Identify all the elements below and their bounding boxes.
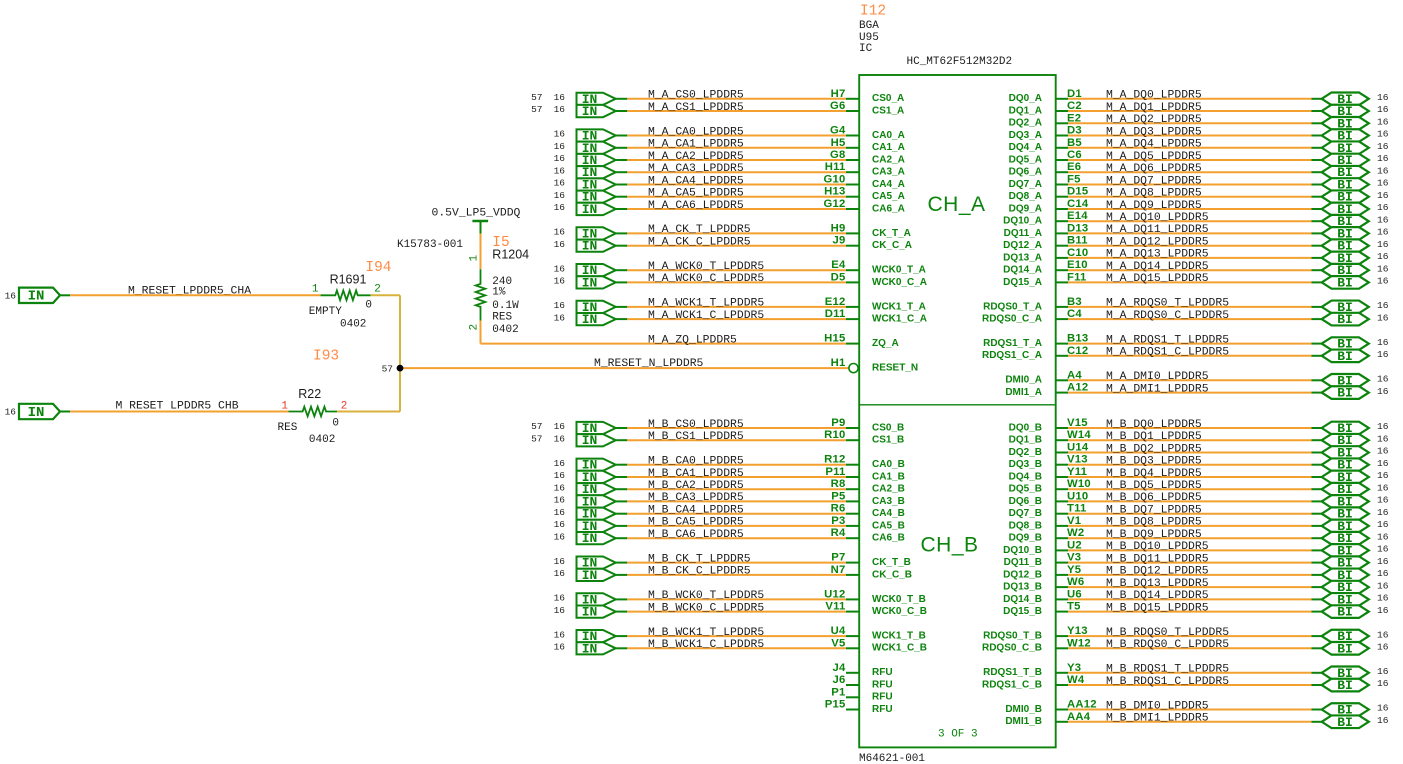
svg-text:M_A_DQ8_LPDDR5: M_A_DQ8_LPDDR5 (1106, 188, 1202, 200)
port IN M_A_CK_T_LPDDR5 (577, 226, 616, 241)
svg-text:DQ7_B: DQ7_B (1009, 508, 1042, 519)
bus width 16 for M_B_DQ15_LPDDR5 (1377, 605, 1389, 616)
svg-text:V11: V11 (825, 601, 845, 613)
pin stub AA4 (1056, 721, 1068, 723)
svg-text:EMPTY: EMPTY (309, 306, 342, 318)
port BI M_A_DQ3_LPDDR5 (1322, 129, 1369, 144)
pin number W6 (1067, 576, 1084, 588)
port IN M_B_CA3_LPDDR5 (577, 494, 616, 509)
net label M_B_DQ1_LPDDR5 (1106, 431, 1202, 443)
svg-text:16: 16 (1377, 202, 1389, 213)
bus width 16 for M_A_DQ10_LPDDR5 (1377, 214, 1389, 225)
svg-text:16: 16 (554, 239, 566, 250)
bus width 16 for M_A_RDQS0_C_LPDDR5 (1377, 312, 1389, 323)
wire M_B_DMI1_LPDDR5 (1068, 721, 1322, 723)
pin stub D15 (1056, 196, 1068, 198)
svg-text:DQ11_A: DQ11_A (1004, 228, 1042, 239)
pin number H15 (824, 333, 845, 345)
pin name CA3_B (CH_B) (872, 496, 905, 507)
svg-text:DQ4_A: DQ4_A (1009, 142, 1042, 153)
pin number B3 (1067, 296, 1082, 308)
wire M_B_DQ14_LPDDR5 (1068, 598, 1322, 600)
pin stub U6 (1056, 598, 1068, 600)
svg-text:16: 16 (1377, 227, 1389, 238)
bus width 57 at junction (382, 363, 393, 374)
wire M_A_CS1_LPDDR5 (616, 110, 846, 112)
junction node 57 (397, 365, 404, 372)
port IN M_A_WCK1_T_LPDDR5 (577, 300, 616, 315)
wire M_B_CK_T_LPDDR5 (616, 562, 846, 564)
svg-text:R8: R8 (831, 478, 846, 490)
svg-text:N7: N7 (831, 564, 846, 576)
net label M_A_CA0_LPDDR5 (648, 126, 744, 138)
pin stub V15 (1056, 427, 1068, 429)
pin name CA5_B (CH_B) (872, 520, 905, 531)
pin stub H11 (846, 171, 859, 173)
tolerance 1% of R1204 (492, 286, 506, 298)
svg-text:M_B_DQ12_LPDDR5: M_B_DQ12_LPDDR5 (1106, 566, 1209, 578)
wire M_RESET_N_LPDDR5 (400, 367, 849, 369)
type RES of R1204 (492, 312, 512, 324)
svg-text:M_B_DQ15_LPDDR5: M_B_DQ15_LPDDR5 (1106, 602, 1209, 614)
svg-text:D1: D1 (1067, 88, 1082, 100)
pin name CA4_A (872, 179, 905, 190)
pin stub H9 (846, 232, 859, 234)
net label 0.5V_LP5_VDDQ (432, 208, 521, 220)
svg-text:DQ6_A: DQ6_A (1009, 167, 1042, 178)
svg-text:CA5_B: CA5_B (872, 520, 905, 531)
pin name WCK1_T_A (872, 301, 926, 312)
svg-text:RES: RES (492, 312, 512, 324)
pin number P1 (831, 686, 845, 698)
svg-text:16: 16 (554, 165, 566, 176)
port IN M_RESET_LPDDR5_CHA (19, 288, 60, 305)
pin number B11 (1067, 235, 1088, 247)
svg-text:16: 16 (1377, 178, 1389, 189)
svg-text:RFU: RFU (872, 704, 893, 715)
svg-text:16: 16 (1377, 165, 1389, 176)
port BI M_A_DQ9_LPDDR5 (1322, 202, 1369, 217)
svg-text:W14: W14 (1067, 429, 1091, 441)
pin stub P5 (846, 500, 859, 502)
pin number H7 (831, 88, 846, 100)
pin stub Y13 (1056, 635, 1068, 637)
wire M_A_DQ3_LPDDR5 (1068, 135, 1322, 137)
svg-text:W6: W6 (1067, 576, 1084, 588)
pin name CA1_B (CH_B) (872, 471, 905, 482)
pin number D1 (1067, 88, 1082, 100)
bus width 16 for M_B_WCK1_T_LPDDR5 (554, 629, 566, 640)
port BI M_A_DQ8_LPDDR5 (1322, 190, 1369, 205)
svg-text:M_B_WCK1_T_LPDDR5: M_B_WCK1_T_LPDDR5 (648, 627, 764, 639)
svg-text:M_A_ZQ_LPDDR5: M_A_ZQ_LPDDR5 (648, 334, 737, 346)
wire M_A_DMI0_LPDDR5 (1068, 379, 1322, 381)
svg-text:M_A_RDQS1_C_LPDDR5: M_A_RDQS1_C_LPDDR5 (1106, 347, 1229, 359)
port BI M_B_RDQS1_C_LPDDR5 (1322, 678, 1369, 693)
svg-text:M_B_CA6_LPDDR5: M_B_CA6_LPDDR5 (648, 529, 744, 541)
svg-text:RDQS0_C_B: RDQS0_C_B (982, 643, 1042, 654)
svg-text:C2: C2 (1067, 100, 1082, 112)
svg-text:J4: J4 (833, 662, 846, 674)
svg-text:V15: V15 (1067, 417, 1088, 429)
pin number Y13 (1067, 625, 1088, 637)
wire M RESET LPDDR5 CHB from port (60, 411, 70, 413)
svg-text:16: 16 (1377, 92, 1389, 103)
bus width 16 for M_B_DQ4_LPDDR5 (1377, 470, 1389, 481)
pin stub R12 (846, 464, 859, 466)
svg-text:RES: RES (278, 422, 298, 434)
net label M_A_ZQ_LPDDR5 (648, 334, 737, 346)
pin stub D13 (1056, 232, 1068, 234)
pin number G6 (830, 100, 845, 112)
svg-text:M_A_CS0_LPDDR5: M_A_CS0_LPDDR5 (648, 90, 744, 102)
wire M_B_DQ1_LPDDR5 (1068, 439, 1322, 441)
svg-text:DQ3_B: DQ3_B (1009, 459, 1042, 470)
svg-text:H5: H5 (831, 137, 846, 149)
pin number P15 (825, 699, 846, 711)
svg-text:M_B_DQ6_LPDDR5: M_B_DQ6_LPDDR5 (1106, 492, 1202, 504)
pin name DMI1_A (1005, 387, 1042, 398)
port BI M_B_DQ2_LPDDR5 (1322, 446, 1369, 461)
svg-text:M_A_CA3_LPDDR5: M_A_CA3_LPDDR5 (648, 163, 744, 175)
instance label I93 (313, 348, 339, 364)
pin name RFU (CH_B) (872, 692, 893, 703)
svg-text:16: 16 (554, 178, 566, 189)
svg-text:P5: P5 (831, 490, 845, 502)
pin name DQ5_B (CH_B) (1009, 484, 1042, 495)
svg-text:T11: T11 (1067, 503, 1086, 515)
net label M_B_DQ6_LPDDR5 (1106, 492, 1202, 504)
svg-text:BGA: BGA (859, 20, 879, 32)
pin name DQ3_B (CH_B) (1009, 459, 1042, 470)
bus width 16 for M_A_WCK0_C_LPDDR5 (554, 276, 566, 287)
svg-text:DQ12_A: DQ12_A (1003, 240, 1042, 251)
bus width 16 for M_A_RDQS1_C_LPDDR5 (1377, 349, 1389, 360)
port IN M_A_CA2_LPDDR5 (577, 153, 616, 168)
net label M_B_CA0_LPDDR5 (648, 456, 744, 468)
net label M_RESET_N_LPDDR5 (594, 358, 704, 370)
pin name DQ7_B (CH_B) (1009, 508, 1042, 519)
svg-text:M_B_CA0_LPDDR5: M_B_CA0_LPDDR5 (648, 456, 744, 468)
pin name CA0_B (CH_B) (872, 459, 905, 470)
svg-text:16: 16 (554, 300, 566, 311)
pin number V11 (825, 601, 845, 613)
svg-text:16: 16 (554, 276, 566, 287)
pin stub T11 (1056, 513, 1068, 515)
wire M_A_WCK1_C_LPDDR5 (616, 318, 846, 320)
wire M_A_DQ13_LPDDR5 (1068, 257, 1322, 259)
pin stub Y3 (1056, 672, 1068, 674)
pin name CS1_A (872, 105, 904, 116)
wire M_B_WCK1_T_LPDDR5 (616, 635, 846, 637)
svg-text:AA12: AA12 (1067, 699, 1097, 711)
pin number D13 (1067, 222, 1088, 234)
svg-text:B3: B3 (1067, 296, 1082, 308)
svg-text:BI: BI (1337, 641, 1353, 656)
bus width 16 for M_B_DQ8_LPDDR5 (1377, 519, 1389, 530)
pin 2 of R1204 (469, 324, 481, 331)
port BI M_B_DQ11_LPDDR5 (1322, 556, 1369, 571)
svg-text:H11: H11 (825, 161, 846, 173)
pin stub H15 (846, 343, 859, 345)
pin stub F5 (1056, 184, 1068, 186)
pin number P3 (831, 515, 845, 527)
svg-text:H9: H9 (831, 222, 846, 234)
svg-text:Y5: Y5 (1067, 564, 1081, 576)
wire M_A_CA4_LPDDR5 (616, 184, 846, 186)
part number K15783-001 (397, 239, 463, 251)
net label M_B_WCK1_T_LPDDR5 (648, 627, 764, 639)
svg-text:16: 16 (554, 458, 566, 469)
svg-text:M_A_CA5_LPDDR5: M_A_CA5_LPDDR5 (648, 188, 744, 200)
pin number F11 (1067, 271, 1086, 283)
net label M_A_RDQS0_T_LPDDR5 (1106, 298, 1229, 310)
bus width 16 for M_A_RDQS1_T_LPDDR5 (1377, 337, 1389, 348)
pin stub Y5 (1056, 574, 1068, 576)
wire M_B_CS1_LPDDR5 (616, 439, 846, 441)
svg-text:C12: C12 (1067, 345, 1088, 357)
svg-text:RDQS0_T_A: RDQS0_T_A (983, 301, 1042, 312)
pin stub E14 (1056, 220, 1068, 222)
pin name WCK1_T_B (CH_B) (872, 631, 926, 642)
svg-text:IN: IN (28, 289, 45, 305)
pin number W4 (1067, 674, 1085, 686)
pin name RDQS0_C_A (982, 314, 1042, 325)
pin stub R8 (846, 488, 859, 490)
svg-text:HC_MT62F512M32D2: HC_MT62F512M32D2 (907, 56, 1013, 68)
bus width 16 for M_A_CS0_LPDDR5 (554, 92, 566, 103)
net label M_A_DMI1_LPDDR5 (1106, 383, 1209, 395)
svg-text:IN: IN (582, 275, 598, 290)
pin name CA5_A (872, 191, 905, 202)
bus width 16 for M_A_CA2_LPDDR5 (554, 153, 566, 164)
wire M_B_CA6_LPDDR5 (616, 537, 846, 539)
pin name WCK0_C_A (872, 277, 927, 288)
bus width 16 for M_B_CS1_LPDDR5 (554, 433, 566, 444)
pin number V5 (831, 637, 845, 649)
pin number A12 (1067, 382, 1088, 394)
pin stub W14 (1056, 439, 1068, 441)
svg-text:DQ4_B: DQ4_B (1009, 471, 1042, 482)
bus width 16 for M_A_CA1_LPDDR5 (554, 141, 566, 152)
svg-text:C4: C4 (1067, 308, 1082, 320)
pin name DMI1_B (CH_B) (1005, 716, 1042, 727)
svg-text:0402: 0402 (492, 324, 518, 336)
svg-text:M_B_DQ0_LPDDR5: M_B_DQ0_LPDDR5 (1106, 419, 1202, 431)
wire M_B_DQ7_LPDDR5 (1068, 513, 1322, 515)
svg-text:G6: G6 (830, 100, 845, 112)
pin stub G12 (846, 208, 859, 210)
pin number R12 (824, 454, 845, 466)
pin number F5 (1067, 174, 1081, 186)
pin stub U10 (1056, 500, 1068, 502)
pin stub R6 (846, 513, 859, 515)
pin stub U14 (1056, 452, 1068, 454)
port BI M_B_DQ4_LPDDR5 (1322, 470, 1369, 485)
svg-text:M_B_DQ14_LPDDR5: M_B_DQ14_LPDDR5 (1106, 590, 1209, 602)
svg-text:M_B_RDQS0_C_LPDDR5: M_B_RDQS0_C_LPDDR5 (1106, 639, 1229, 651)
pin name WCK1_C_B (CH_B) (872, 643, 927, 654)
svg-text:CA2_B: CA2_B (872, 484, 905, 495)
pin name DQ11_B (CH_B) (1004, 557, 1042, 568)
bus width 16 for M_A_DQ12_LPDDR5 (1377, 239, 1389, 250)
svg-text:BI: BI (1337, 678, 1353, 693)
svg-text:0.1W: 0.1W (492, 300, 519, 312)
svg-text:IN: IN (582, 433, 598, 448)
svg-text:M_A_CA2_LPDDR5: M_A_CA2_LPDDR5 (648, 151, 744, 163)
bus width 16 for M_B_DQ9_LPDDR5 (1377, 531, 1389, 542)
pin stub U12 (846, 598, 859, 600)
svg-text:1: 1 (281, 400, 288, 412)
port IN M_B_WCK1_T_LPDDR5 (577, 629, 616, 644)
port BI M_A_DMI1_LPDDR5 (1322, 386, 1369, 401)
svg-text:M_B_DQ5_LPDDR5: M_B_DQ5_LPDDR5 (1106, 480, 1202, 492)
svg-text:16: 16 (1377, 239, 1389, 250)
refdes R22 (298, 387, 321, 401)
wire M_A_DMI1_LPDDR5 (1068, 392, 1322, 394)
port BI M_A_DQ1_LPDDR5 (1322, 104, 1369, 119)
svg-text:M64621-001: M64621-001 (859, 753, 925, 764)
pin stub R4 (846, 537, 859, 539)
port IN M_A_CS0_LPDDR5 (577, 92, 616, 107)
svg-text:CH_B: CH_B (921, 534, 979, 557)
bus width 57 for M_A_CS0_LPDDR5 (531, 92, 542, 103)
svg-text:DMI0_A: DMI0_A (1005, 375, 1042, 386)
svg-text:16: 16 (1377, 642, 1389, 653)
net label M_B_DQ0_LPDDR5 (1106, 419, 1202, 431)
pin name CA6_A (872, 203, 905, 214)
svg-text:DQ0_A: DQ0_A (1009, 93, 1042, 104)
svg-text:D13: D13 (1067, 222, 1088, 234)
svg-text:B11: B11 (1067, 235, 1088, 247)
net label M_B_DQ2_LPDDR5 (1106, 443, 1202, 455)
pin number G4 (830, 125, 846, 137)
net label M_B_CA6_LPDDR5 (648, 529, 744, 541)
bus width 16 for M_B_CA2_LPDDR5 (554, 482, 566, 493)
port BI M_A_DQ5_LPDDR5 (1322, 153, 1369, 168)
net label M_B_DQ14_LPDDR5 (1106, 590, 1209, 602)
pin name RDQS1_T_B (CH_B) (983, 667, 1042, 678)
svg-text:16: 16 (1377, 470, 1389, 481)
svg-text:W2: W2 (1067, 527, 1084, 539)
wire M_A_DQ9_LPDDR5 (1068, 208, 1322, 210)
net label M_B_CA1_LPDDR5 (648, 468, 744, 480)
svg-text:DQ2_A: DQ2_A (1009, 118, 1042, 129)
package label BGA (859, 20, 879, 32)
svg-text:0.5V_LP5_VDDQ: 0.5V_LP5_VDDQ (432, 208, 521, 220)
port IN M_B_CA6_LPDDR5 (577, 531, 616, 546)
bus width 16 for M_A_DQ1_LPDDR5 (1377, 104, 1389, 115)
svg-text:M_B_CS1_LPDDR5: M_B_CS1_LPDDR5 (648, 431, 744, 443)
svg-text:I93: I93 (313, 348, 339, 364)
pin number U4 (831, 625, 846, 637)
section title CH_B (921, 534, 979, 557)
wire M_B_WCK0_T_LPDDR5 (616, 598, 846, 600)
svg-text:E4: E4 (831, 259, 846, 271)
svg-text:3 OF 3: 3 OF 3 (938, 729, 978, 741)
pin number G10 (824, 174, 846, 186)
port BI M_B_DMI1_LPDDR5 (1322, 715, 1369, 730)
svg-text:16: 16 (554, 433, 566, 444)
svg-text:DQ11_B: DQ11_B (1004, 557, 1042, 568)
wire M_B_DQ0_LPDDR5 (1068, 427, 1322, 429)
svg-text:16: 16 (554, 568, 566, 579)
svg-text:M_A_CA6_LPDDR5: M_A_CA6_LPDDR5 (648, 200, 744, 212)
port IN M_A_CS1_LPDDR5 (577, 104, 616, 119)
svg-text:RESET_N: RESET_N (872, 363, 918, 374)
pin number B5 (1067, 137, 1082, 149)
pin name DQ2_B (CH_B) (1009, 447, 1042, 458)
wire M_B_CA4_LPDDR5 (616, 513, 846, 515)
bus width 16 for M_B_WCK0_C_LPDDR5 (554, 605, 566, 616)
svg-text:M_B_WCK0_C_LPDDR5: M_B_WCK0_C_LPDDR5 (648, 602, 764, 614)
net label M_A_DQ4_LPDDR5 (1106, 139, 1202, 151)
pin stub J4 (RFU) (846, 672, 859, 674)
svg-text:16: 16 (554, 629, 566, 640)
svg-text:M_A_DQ15_LPDDR5: M_A_DQ15_LPDDR5 (1106, 273, 1209, 285)
svg-text:16: 16 (1377, 703, 1389, 714)
pin stub C12 (1056, 355, 1068, 357)
port BI M_A_RDQS0_T_LPDDR5 (1322, 300, 1369, 315)
port BI M_A_DQ0_LPDDR5 (1322, 92, 1369, 107)
svg-text:0: 0 (332, 418, 339, 430)
bus width 16 for M_B_DQ10_LPDDR5 (1377, 544, 1389, 555)
net label M_A_WCK1_C_LPDDR5 (648, 310, 764, 322)
pin name CA2_B (CH_B) (872, 484, 905, 495)
bus width 57 for M_B_CS1_LPDDR5 (531, 433, 542, 444)
wire M_A_CA2_LPDDR5 (616, 159, 846, 161)
pin number Y3 (1067, 662, 1081, 674)
wire M_A_DQ5_LPDDR5 (1068, 159, 1322, 161)
svg-text:57: 57 (531, 92, 542, 103)
svg-text:RFU: RFU (872, 667, 893, 678)
svg-text:M_A_WCK0_C_LPDDR5: M_A_WCK0_C_LPDDR5 (648, 273, 764, 285)
svg-text:16: 16 (554, 531, 566, 542)
svg-text:M_A_DQ6_LPDDR5: M_A_DQ6_LPDDR5 (1106, 163, 1202, 175)
bus width 16 for M_B_CA4_LPDDR5 (554, 507, 566, 518)
pin number E6 (1067, 161, 1081, 173)
pin number A4 (1067, 369, 1082, 381)
svg-text:M_A_DMI0_LPDDR5: M_A_DMI0_LPDDR5 (1106, 371, 1209, 383)
port IN M_B_CS1_LPDDR5 (577, 433, 616, 448)
wire M_A_CA3_LPDDR5 (616, 171, 846, 173)
pin stub W2 (1056, 537, 1068, 539)
bus width 16 for M_A_RDQS0_T_LPDDR5 (1377, 300, 1389, 311)
svg-text:H13: H13 (824, 186, 845, 198)
pin name CA6_B (CH_B) (872, 533, 905, 544)
net label M RESET LPDDR5 CHB (116, 400, 239, 412)
pin name CA1_A (872, 142, 905, 153)
svg-text:IC: IC (859, 43, 873, 55)
svg-text:A4: A4 (1067, 369, 1082, 381)
svg-text:M_B_DMI1_LPDDR5: M_B_DMI1_LPDDR5 (1106, 713, 1209, 725)
net label M_B_DQ9_LPDDR5 (1106, 529, 1202, 541)
pin name DQ6_B (CH_B) (1009, 496, 1042, 507)
pin stub H5 (846, 147, 859, 149)
wire 0.5V_LP5_VDDQ vertical from R1204 to ZQ (481, 321, 847, 344)
pin stub A4 (1056, 379, 1068, 381)
wire M_A_DQ12_LPDDR5 (1068, 245, 1322, 247)
svg-text:M_B_CA4_LPDDR5: M_B_CA4_LPDDR5 (648, 505, 744, 517)
wire M_A_DQ10_LPDDR5 (1068, 220, 1322, 222)
bus width 16 for M_A_DQ13_LPDDR5 (1377, 251, 1389, 262)
pin stub F11 (1056, 281, 1068, 283)
instance label I5 (492, 235, 509, 251)
bus width 16 for M_A_CA5_LPDDR5 (554, 190, 566, 201)
bus width 16 for M_A_DQ3_LPDDR5 (1377, 129, 1389, 140)
net label M_B_DQ8_LPDDR5 (1106, 517, 1202, 529)
pin stub R10 (846, 439, 859, 441)
